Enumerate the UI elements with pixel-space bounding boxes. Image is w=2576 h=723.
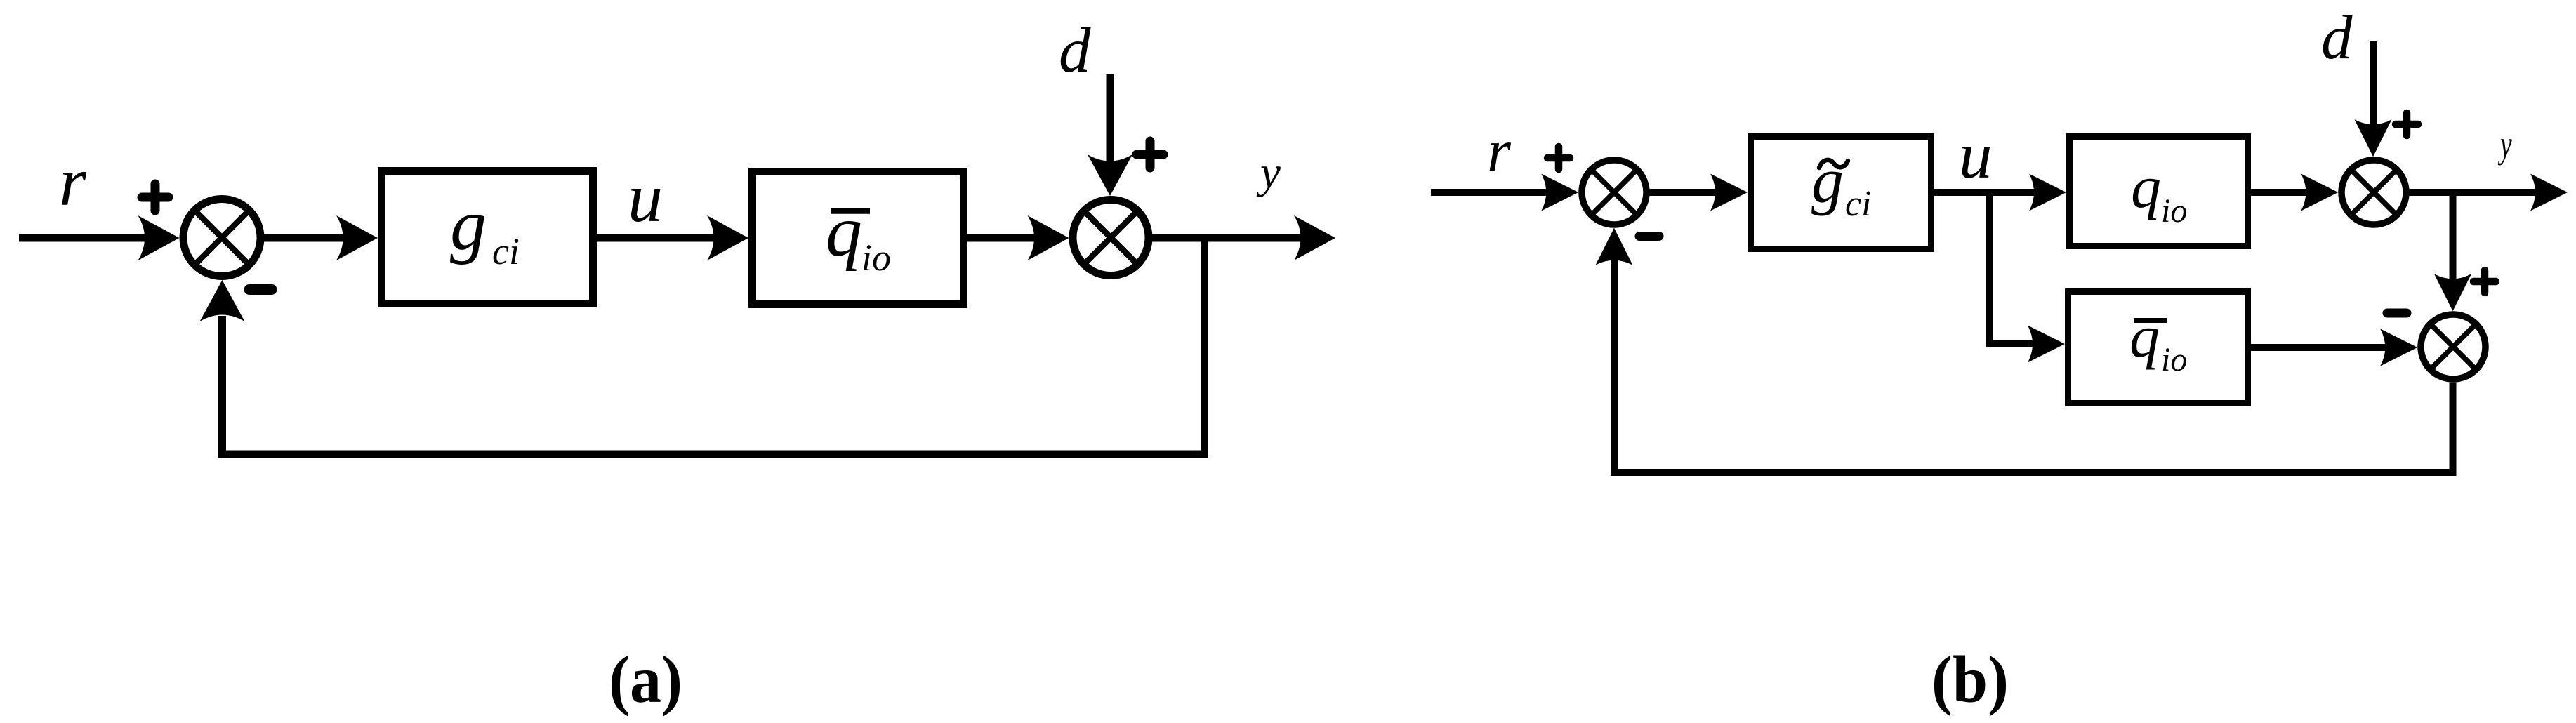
- minus sign at T1 feedback (b): [1639, 232, 1659, 241]
- plus sign at d input T2 (b): [2396, 121, 2418, 128]
- summing junction S1 (a): [183, 199, 260, 277]
- svg-text:d: d: [1059, 15, 1091, 86]
- svg-text:io: io: [2161, 341, 2187, 378]
- minus sign at T3 left (b): [2387, 309, 2407, 318]
- wire: input r (a): [19, 234, 152, 242]
- wire q_io-bar to T3 (b): [2251, 344, 2391, 351]
- svg-text:u: u: [628, 159, 663, 237]
- arrowhead output y (a): [1294, 215, 1335, 260]
- arrowhead into T3 top (b): [2434, 274, 2471, 311]
- summing junction T3 (b): [2421, 314, 2485, 379]
- wire feedback left vertical (a): [218, 316, 226, 458]
- node branch vertical (a): [1201, 234, 1208, 454]
- arrowhead into summing junction S2 (a): [1028, 215, 1069, 260]
- wire q_io-bar to S2 (a): [967, 234, 1042, 242]
- plus sign at T3 top (b): [2473, 278, 2496, 286]
- svg-text:ci: ci: [492, 230, 520, 272]
- arrowhead into block q_io (b): [2029, 174, 2066, 211]
- block q_io-bar (a): [753, 172, 964, 305]
- arrowhead into summing junction T2 (b): [2301, 174, 2338, 211]
- summing junction T2 (b): [2341, 160, 2406, 225]
- arrowhead into block q_io-bar (b): [2028, 326, 2065, 363]
- arrowhead d into T2 (b): [2355, 119, 2392, 157]
- wire feedback right vertical (b): [2450, 383, 2457, 472]
- wire T1 to block g-tilde (b): [1646, 189, 1722, 196]
- plus sign at S1 (a): [142, 193, 169, 202]
- svg-text:d: d: [2321, 4, 2353, 72]
- svg-text:q: q: [826, 191, 862, 272]
- wire feedback left vertical (b): [1611, 260, 1618, 476]
- wire feedback bottom (a): [218, 451, 1208, 458]
- label y (b): [2498, 124, 2512, 166]
- plus sign at T1 (b): [1547, 154, 1570, 162]
- wire g-tilde to branch node (b): [1934, 189, 2040, 196]
- svg-text:q: q: [2131, 153, 2161, 220]
- svg-text:y: y: [2498, 124, 2512, 166]
- arrowhead into T3 left (b): [2380, 329, 2417, 366]
- arrowhead into block g-tilde (b): [1710, 174, 1748, 211]
- summing junction T1 (b): [1582, 160, 1646, 225]
- svg-text:u: u: [1959, 118, 1993, 192]
- branch node vertical wire (b): [1986, 189, 1993, 347]
- wire d input (a): [1107, 74, 1114, 165]
- arrowhead into block g_ci (a): [336, 215, 378, 260]
- wire d input (b): [2370, 41, 2377, 130]
- block g_ci-tilde (b): [1751, 137, 1931, 249]
- arrowhead output y (b): [2530, 174, 2568, 211]
- svg-text:r: r: [59, 142, 87, 220]
- block q_io (b): [2070, 137, 2248, 246]
- arrowhead d into S2 (a): [1088, 154, 1132, 196]
- tilde over g (b): [1819, 160, 1848, 168]
- arrowhead into block q_io-bar (a): [707, 215, 748, 260]
- svg-text:g: g: [450, 185, 487, 265]
- wire output y (b): [2406, 189, 2540, 196]
- svg-text:y: y: [1256, 147, 1281, 198]
- arrowhead feedback into T1 bottom (b): [1596, 228, 1633, 265]
- svg-text:ci: ci: [1845, 184, 1872, 224]
- arrowhead into summing junction T1 (b): [1541, 174, 1578, 211]
- wire q_io to T2 (b): [2251, 189, 2311, 196]
- svg-text:q: q: [2129, 303, 2160, 370]
- svg-text:io: io: [2161, 192, 2187, 230]
- svg-text:io: io: [861, 237, 891, 279]
- summing junction S2 (a): [1073, 200, 1149, 276]
- arrowhead into summing junction S1 (a): [138, 215, 180, 260]
- wire S1 to block g_ci (a): [260, 234, 350, 242]
- minus sign at S1 feedback (a): [249, 284, 272, 295]
- block g_ci (a): [382, 171, 593, 304]
- wire output y (a): [1149, 234, 1306, 242]
- node branch vertical to T3 (b): [2450, 189, 2457, 281]
- overbar of q (b): [2134, 318, 2167, 323]
- overbar of q (a): [831, 208, 870, 214]
- svg-text:(a): (a): [609, 642, 682, 717]
- svg-text:g: g: [1811, 145, 1844, 216]
- wire feedback bottom (b): [1611, 469, 2457, 476]
- wire g_ci to q_io-bar (a): [597, 234, 720, 242]
- plus sign at d input S2 (a): [1137, 150, 1163, 159]
- wire: input r (b): [1431, 189, 1552, 196]
- wire branch to q_io-bar (b): [1989, 340, 2040, 347]
- svg-text:(b): (b): [1931, 642, 2009, 717]
- block q_io-bar (b): [2068, 292, 2248, 404]
- svg-text:r: r: [1487, 117, 1512, 185]
- arrowhead feedback into S1 bottom (a): [200, 280, 245, 321]
